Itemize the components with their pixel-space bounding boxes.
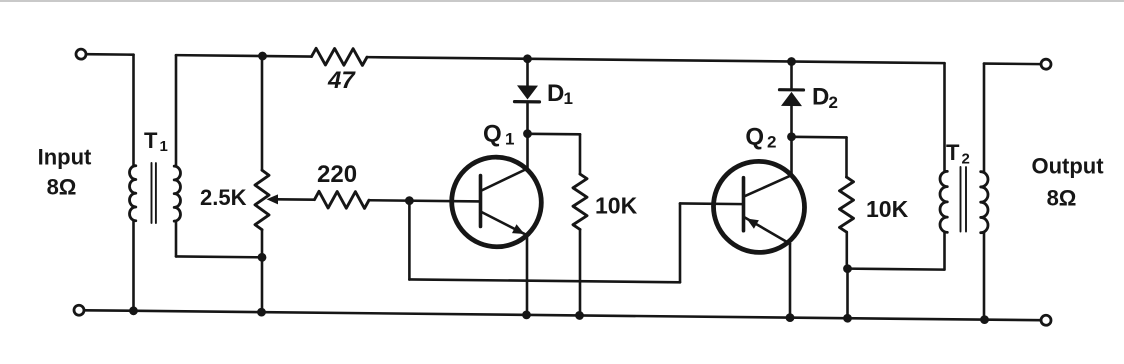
junction T1 primary / bottom rail (129, 306, 138, 315)
wire top rail output section (984, 64, 1041, 173)
potentiometer wiper arrow (267, 194, 315, 204)
svg-text:D: D (812, 84, 829, 111)
junction 10K second / T2 node (843, 264, 852, 273)
junction 2.5K / T1 secondary (258, 253, 267, 262)
wire 220 to Q1 base (369, 200, 481, 201)
transformer T1 secondary winding (174, 166, 180, 221)
transistor Q2 emitter stroke (744, 217, 791, 244)
wire D2 anode lead (790, 106, 793, 137)
svg-text:Q: Q (745, 124, 764, 151)
transistor Q1 emitter stroke (481, 211, 525, 233)
wire D2 cathode lead (790, 62, 793, 90)
svg-text:10K: 10K (866, 196, 909, 222)
wire T1 secondary bottom lead (176, 221, 262, 257)
output terminal top-right (1041, 59, 1051, 69)
wire T2 primary bottom lead (943, 232, 946, 269)
wire top rail left section (176, 55, 312, 167)
wire Q2 emitter to bottom rail (789, 244, 792, 318)
diode D1 (515, 85, 540, 102)
wire T1 primary top lead (132, 55, 135, 166)
resistor 220 body (315, 191, 370, 208)
resistor 47 body (312, 48, 368, 65)
transistor Q2 body circle (714, 161, 805, 253)
wire 10K second bottom lead (845, 232, 848, 318)
junction D1 / Q1 collector node (523, 129, 532, 138)
junction Q2 emitter / bottom rail (786, 313, 795, 322)
wire Q2 collector node to 10K (792, 137, 847, 177)
junction 10K first / bottom rail (575, 311, 584, 320)
svg-text:2.5K: 2.5K (200, 185, 247, 210)
wire base-coupling run (409, 201, 680, 283)
diode D2 (780, 90, 804, 106)
potentiometer R1 2.5K body (255, 170, 269, 230)
transistor Q2 collector stroke (744, 175, 792, 197)
wire 2.5K top lead (261, 56, 264, 170)
junction 2.5K top / top rail (258, 52, 267, 61)
wire collector node to 10K (528, 134, 581, 174)
svg-text:220: 220 (317, 161, 357, 188)
wire 2.5K bottom lead (261, 230, 264, 312)
wire T2 primary bottom run (848, 267, 944, 271)
junction Q1 emitter / bottom rail (522, 310, 531, 319)
wire T2 primary top lead (943, 63, 946, 171)
junction D2 / Q2 collector node (787, 132, 796, 141)
svg-text:T: T (144, 128, 158, 153)
junction node base Q1 (405, 196, 414, 205)
wire bottom rail (84, 310, 1041, 320)
wire T1 primary bottom lead (132, 221, 135, 311)
junction D1 / top rail (523, 54, 532, 63)
wire to Q2 base (680, 202, 744, 205)
transformer T2 secondary winding (981, 172, 988, 233)
wire D1 anode lead (526, 59, 529, 86)
svg-text:1: 1 (160, 138, 168, 155)
transformer T2 core (961, 167, 967, 232)
junction D2 / top rail (787, 57, 796, 66)
transistor Q2 base bar (742, 178, 746, 231)
svg-text:Q: Q (483, 121, 502, 148)
transformer T1 core (152, 163, 156, 223)
junction T2 secondary / bottom rail (980, 315, 989, 324)
wire Q1 emitter to bottom rail (526, 236, 529, 314)
resistor 10K second body (840, 177, 854, 232)
wire 10K first bottom lead (579, 229, 582, 315)
resistor 10K first body (573, 174, 587, 230)
wire Q1 collector lead (526, 134, 529, 169)
svg-text:T: T (946, 140, 960, 165)
junction 10K second / bottom rail (843, 314, 852, 323)
transistor Q1 base bar (479, 175, 483, 226)
transformer T1 primary winding (130, 166, 136, 221)
junction 2.5K / bottom rail (257, 308, 266, 317)
transistor Q1 body circle (452, 157, 542, 248)
wire D1 cathode lead (526, 103, 529, 133)
svg-text:2: 2 (962, 151, 970, 168)
svg-text:2: 2 (767, 133, 776, 152)
svg-text:10K: 10K (595, 193, 638, 219)
svg-text:1: 1 (505, 130, 514, 149)
wire top-left terminal to T1 primary (87, 53, 134, 56)
wire Q2 collector lead (790, 137, 793, 176)
svg-text:D: D (547, 80, 564, 107)
transistor Q1 collector stroke (481, 168, 528, 191)
svg-text:8Ω: 8Ω (47, 175, 77, 200)
svg-text:Input: Input (38, 145, 92, 170)
svg-text:2: 2 (829, 93, 838, 112)
svg-text:Output: Output (1031, 154, 1104, 179)
wire T2 secondary bottom lead (983, 233, 986, 320)
svg-text:8Ω: 8Ω (1047, 186, 1077, 211)
scan edge line top (0, 0, 1124, 2)
transformer T2 primary winding (940, 171, 947, 232)
output terminal bottom-right (1041, 315, 1051, 325)
svg-text:47: 47 (327, 67, 356, 94)
wire top rail right section (367, 57, 945, 63)
input terminal top-left (76, 49, 86, 59)
input terminal bottom-left (74, 305, 84, 315)
svg-text:1: 1 (564, 89, 573, 108)
